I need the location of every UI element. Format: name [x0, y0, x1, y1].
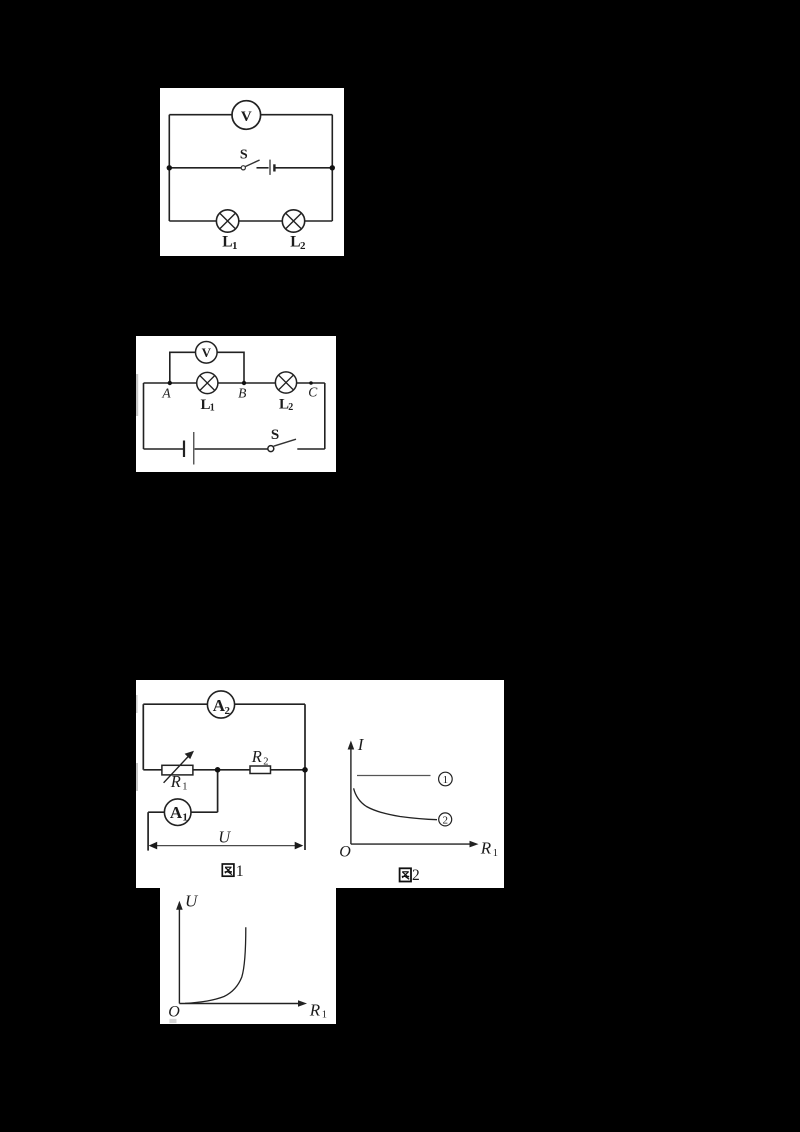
switch S: [240, 148, 260, 170]
label 图2: [400, 867, 420, 884]
edge artifact: [136, 374, 138, 416]
panel 1: series circuit with voltmeter: [160, 88, 344, 256]
svg-text:O: O: [168, 1004, 180, 1021]
svg-text:R: R: [309, 1000, 321, 1019]
axis arrowheads: [348, 741, 355, 750]
svg-text:O: O: [339, 844, 351, 861]
svg-text:2: 2: [412, 867, 420, 884]
svg-text:1: 1: [322, 1009, 327, 1020]
wire node down: [217, 770, 219, 812]
node left: [167, 165, 172, 170]
lamp L1: [216, 210, 238, 252]
svg-text:U: U: [218, 827, 231, 846]
curve 1: [357, 775, 431, 777]
wire left short vertical: [147, 812, 149, 850]
svg-text:S: S: [271, 427, 279, 443]
switch S: [268, 427, 296, 452]
svg-text:V: V: [202, 345, 212, 360]
wire right vertical: [331, 115, 333, 221]
wire right vertical: [304, 704, 306, 850]
wire switch to right: [297, 448, 325, 450]
rheostat R1: [162, 751, 194, 793]
svg-text:2: 2: [263, 756, 268, 767]
wire main middle: [143, 769, 305, 771]
battery: [184, 432, 194, 465]
wire top: [169, 114, 332, 116]
circled 1: [439, 772, 453, 786]
svg-text:A: A: [170, 803, 183, 822]
svg-text:R: R: [251, 747, 262, 766]
label 图1: [222, 863, 243, 880]
svg-text:S: S: [240, 148, 248, 163]
curve 2: [354, 788, 437, 819]
svg-text:C: C: [308, 385, 318, 400]
curve: [185, 927, 246, 1003]
wire battery to switch: [195, 448, 270, 450]
svg-text:1: 1: [236, 863, 244, 880]
svg-text:2: 2: [288, 402, 293, 413]
svg-text:1: 1: [210, 403, 215, 414]
node B: [242, 381, 246, 385]
node A: [168, 381, 172, 385]
lamp L2: [275, 372, 296, 413]
wire left vertical: [142, 704, 144, 770]
resistor R2: [250, 747, 271, 774]
svg-text:1: 1: [232, 240, 238, 252]
node middle: [215, 767, 221, 773]
svg-text:2: 2: [225, 705, 231, 717]
svg-text:U: U: [185, 892, 199, 911]
svg-text:V: V: [241, 109, 252, 125]
voltmeter V: [196, 342, 218, 364]
svg-text:B: B: [238, 386, 246, 401]
edge artifact: [136, 695, 138, 713]
voltmeter V: [232, 101, 261, 130]
voltmeter loop: [170, 352, 244, 383]
svg-text:1: 1: [182, 812, 188, 824]
node right: [302, 767, 308, 773]
lamp L1: [197, 372, 218, 413]
wire middle right of battery: [275, 167, 332, 169]
wire A1 horizontal: [148, 811, 218, 813]
wire bottom left to battery: [144, 448, 184, 450]
wire middle left: [169, 167, 241, 169]
edge artifact: [170, 1019, 177, 1023]
ammeter A2: [207, 691, 234, 718]
axis arrowheads: [176, 901, 183, 910]
wire main horizontal: [144, 382, 325, 384]
svg-text:1: 1: [443, 774, 449, 786]
ammeter A1: [164, 799, 191, 826]
panel 2: circuit with voltmeter across L1, nodes A B C: [136, 336, 336, 472]
axes: [179, 907, 300, 1004]
node C: [309, 381, 313, 385]
wire bottom: [169, 220, 332, 222]
svg-text:1: 1: [493, 848, 498, 859]
wire left vertical: [143, 383, 145, 449]
node right: [330, 165, 335, 170]
svg-text:2: 2: [442, 815, 448, 827]
svg-text:A: A: [161, 386, 171, 401]
graph 2 axes: [351, 747, 472, 844]
wire left vertical: [168, 115, 170, 221]
battery: [270, 160, 274, 175]
svg-text:R: R: [480, 839, 492, 858]
U span arrow: [149, 827, 304, 849]
wire top: [143, 703, 305, 705]
circled 2: [439, 813, 452, 827]
svg-text:I: I: [357, 735, 365, 754]
wire switch to battery: [257, 167, 269, 169]
svg-text:2: 2: [300, 240, 306, 252]
wire right vertical: [324, 383, 326, 449]
panel 4: U vs R1 graph: [160, 888, 336, 1024]
svg-text:1: 1: [182, 781, 187, 792]
panel 3: 图1 circuit and 图2 graph: [136, 680, 504, 888]
lamp L2: [282, 210, 306, 252]
svg-text:R: R: [170, 772, 181, 791]
